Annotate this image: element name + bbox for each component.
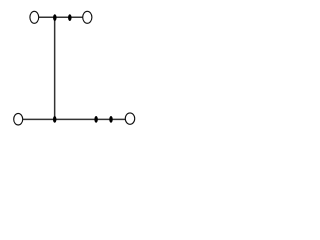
junction dot top 2 [68, 14, 72, 21]
junction dot top 1 [53, 14, 57, 21]
wire bottom horizontal [23, 118, 126, 120]
wire vertical [54, 17, 56, 119]
terminal top-left [30, 11, 39, 23]
wire top horizontal [39, 16, 84, 18]
junction dot bottom 1 (node with vertical wire) [53, 116, 57, 123]
terminal bottom-right [125, 113, 134, 124]
junction dot bottom 3 [109, 116, 113, 123]
junction dot bottom 2 [94, 116, 98, 123]
terminal bottom-left [14, 113, 23, 125]
terminal top-right [83, 11, 92, 23]
